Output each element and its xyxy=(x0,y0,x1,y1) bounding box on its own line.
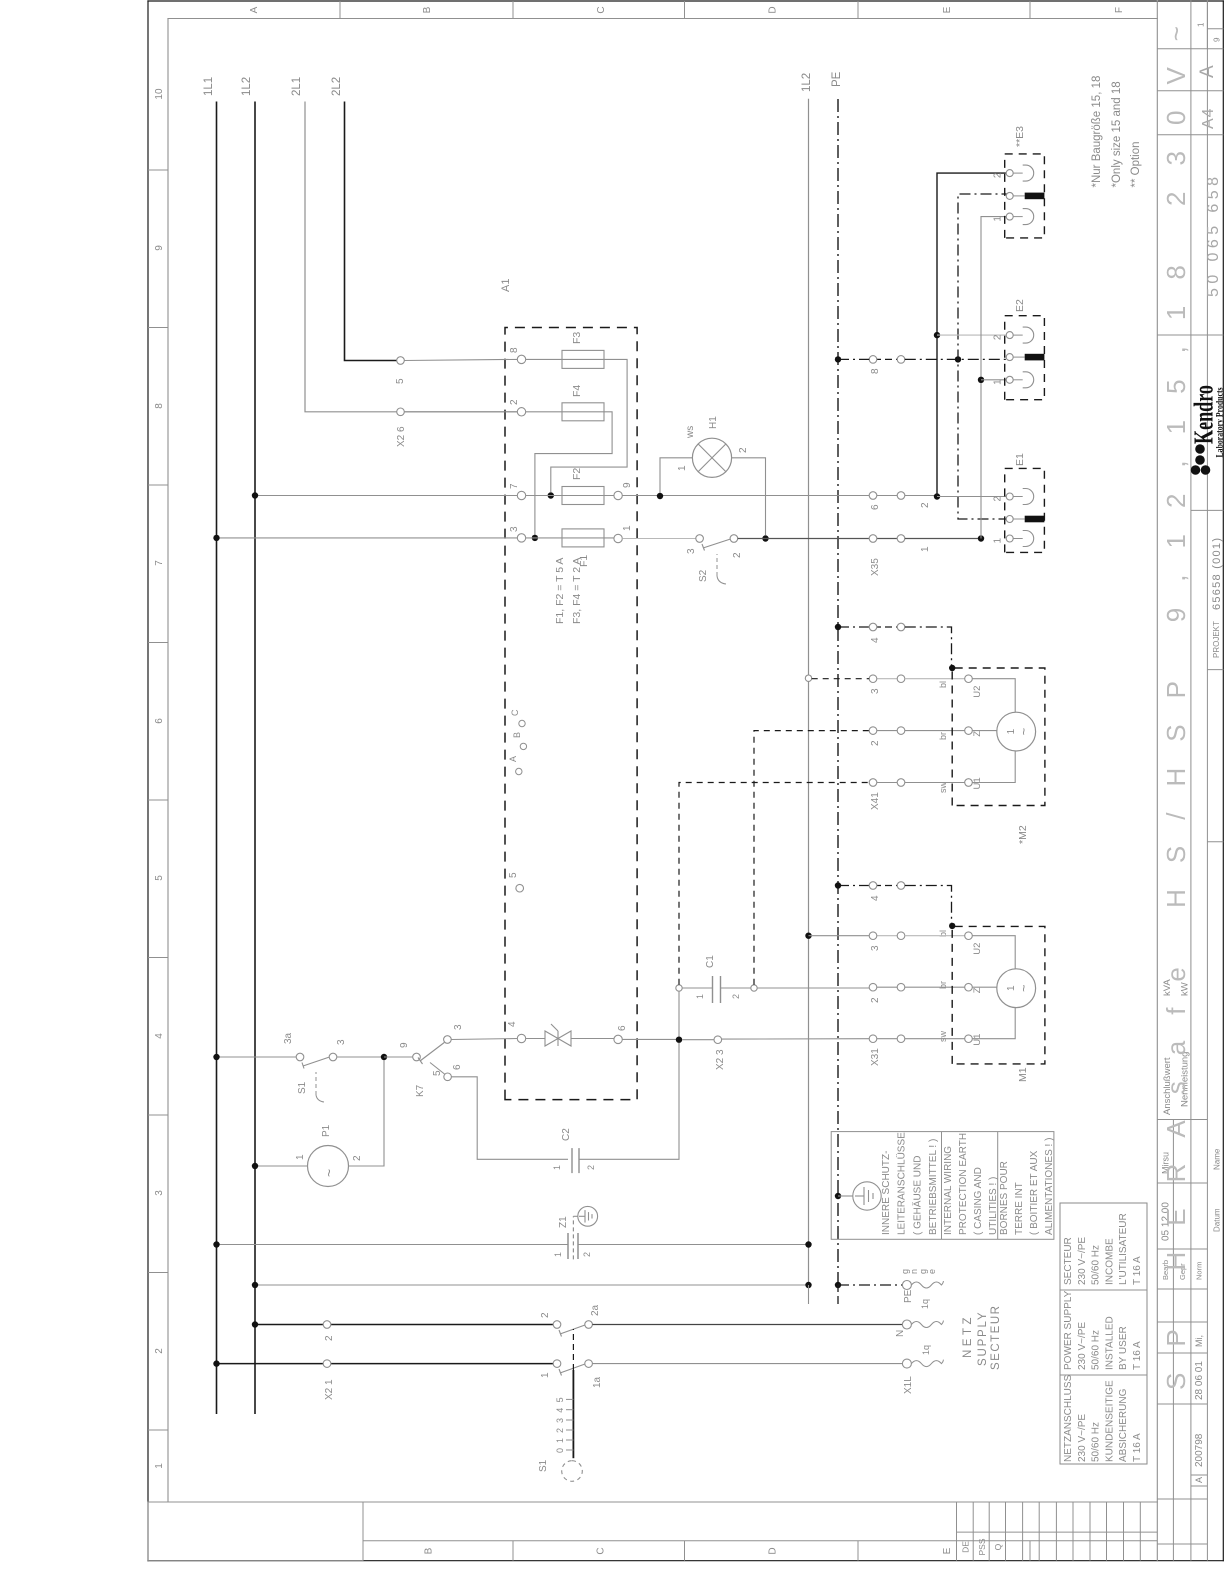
E1 lamp contact symbols xyxy=(1013,489,1033,547)
PE earth symbol branch xyxy=(835,1182,881,1210)
junction M2 frame PE xyxy=(949,665,955,671)
M1 pin U1 xyxy=(965,1035,973,1043)
triac V1 in A1 xyxy=(526,1024,614,1046)
**E3 pin mid PE xyxy=(1006,192,1013,199)
svg-text:1: 1 xyxy=(552,1165,562,1170)
svg-text:28 06 01: 28 06 01 xyxy=(1194,1361,1205,1400)
svg-text:6: 6 xyxy=(154,718,165,724)
svg-text:2: 2 xyxy=(732,552,743,558)
svg-text:S1: S1 xyxy=(538,1459,549,1472)
svg-text:50/60 Hz: 50/60 Hz xyxy=(1091,1330,1102,1370)
svg-text:2: 2 xyxy=(352,1155,363,1161)
wires X41 to M2 xyxy=(905,678,965,680)
svg-text:1L1: 1L1 xyxy=(203,77,215,96)
terminal X23 circle xyxy=(714,1036,722,1044)
svg-text:2: 2 xyxy=(993,172,1004,178)
svg-text:( BOITIER ET AUX: ( BOITIER ET AUX xyxy=(1029,1150,1040,1235)
svg-text:8: 8 xyxy=(154,403,165,409)
svg-text:2: 2 xyxy=(870,740,881,746)
svg-text:A: A xyxy=(249,6,260,13)
svg-text:( CASING AND: ( CASING AND xyxy=(973,1167,984,1235)
svg-text:7: 7 xyxy=(154,560,165,566)
**E3 chassis bar xyxy=(1013,193,1044,200)
wire H1 pin 2 to S2 output xyxy=(732,458,766,535)
capacitor C2 xyxy=(552,1128,596,1173)
junction on 1L1 xyxy=(213,1054,219,1060)
svg-text:6: 6 xyxy=(452,1064,463,1070)
svg-text:S1: S1 xyxy=(297,1081,308,1094)
S1 mechanical link at contact xyxy=(297,1072,324,1102)
svg-text:L'UTILISATEUR: L'UTILISATEUR xyxy=(1118,1213,1129,1285)
wire node 9 to K7 contact xyxy=(384,1056,413,1058)
dashed wire sw to X41:1 xyxy=(679,783,869,985)
svg-text:10: 10 xyxy=(154,88,165,100)
relay contact K7 9-3 xyxy=(399,1024,464,1064)
terminal X41 pin 4 xyxy=(869,623,905,643)
svg-text:*Only size 15 and 18: *Only size 15 and 18 xyxy=(1111,81,1123,187)
junction X23 node xyxy=(676,1037,682,1043)
svg-text:X2 3: X2 3 xyxy=(715,1049,726,1070)
svg-text:ws: ws xyxy=(685,426,696,439)
svg-text:3: 3 xyxy=(870,688,881,694)
junction PE E-branch xyxy=(955,356,961,362)
svg-text:1: 1 xyxy=(555,1438,565,1443)
terminal X31 pin 4 xyxy=(869,882,905,901)
fuse F1 xyxy=(526,529,614,567)
svg-text:BY USER: BY USER xyxy=(1118,1326,1129,1370)
frame row ruler letters A-F right side xyxy=(249,1,1125,19)
svg-text:1: 1 xyxy=(622,525,633,531)
svg-text:65658 (001): 65658 (001) xyxy=(1211,538,1223,610)
wire 2L2 X2:5 to A1 pin 8 xyxy=(404,359,517,360)
power supply table NETZANSCHLUSS POWER SUPPLY SECTEUR xyxy=(1060,1203,1147,1464)
svg-text:X2 1: X2 1 xyxy=(324,1379,335,1400)
svg-text:1: 1 xyxy=(993,538,1004,544)
svg-text:BORNES POUR: BORNES POUR xyxy=(999,1161,1010,1235)
E2 lamp contact symbols xyxy=(1013,327,1033,388)
svg-text:1q: 1q xyxy=(921,1345,931,1355)
wire A1 pin 3 to bus 1L1 xyxy=(217,537,518,539)
svg-text:D: D xyxy=(767,1547,778,1554)
svg-text:N: N xyxy=(895,1330,906,1337)
svg-text:PROJEKT: PROJEKT xyxy=(1212,621,1221,658)
wire N to mains arrow xyxy=(592,1324,903,1326)
svg-text:e: e xyxy=(927,1269,937,1274)
A1 pin 7 xyxy=(517,491,525,499)
svg-text:D: D xyxy=(767,6,778,13)
junction end on 1L2 right xyxy=(805,1282,811,1288)
svg-text:A4: A4 xyxy=(1200,107,1217,129)
terminal X2:1 xyxy=(323,1360,331,1368)
svg-text:~: ~ xyxy=(1016,984,1031,992)
main switch S1 contact 1-1a xyxy=(540,1360,603,1388)
svg-text:5: 5 xyxy=(555,1397,565,1402)
svg-text:8: 8 xyxy=(870,368,881,374)
A1 pin 4 xyxy=(517,1034,525,1042)
svg-text:1: 1 xyxy=(295,1154,306,1160)
X35 pin 1 xyxy=(869,535,905,543)
wire sw X23 to X31:1 xyxy=(682,1039,714,1041)
svg-text:1: 1 xyxy=(993,216,1004,222)
frame top-left spare box xyxy=(148,1502,363,1561)
wire N row from 1L2 xyxy=(255,1324,553,1326)
svg-text:1: 1 xyxy=(154,1463,165,1469)
svg-text:H1: H1 xyxy=(708,416,719,429)
label NETZ SUPPLY SECTEUR xyxy=(962,1305,1002,1370)
Kendro Laboratory Products logo xyxy=(1189,385,1224,475)
svg-text:SECTEUR: SECTEUR xyxy=(990,1305,1002,1370)
svg-text:9: 9 xyxy=(622,482,633,488)
junction on 1L2 xyxy=(252,1321,258,1327)
wire H1 pin 1 xyxy=(660,458,692,493)
terminal X2:2 xyxy=(323,1321,331,1329)
M1 pin Z xyxy=(965,983,973,991)
svg-text:SECTEUR: SECTEUR xyxy=(1063,1237,1074,1285)
junction on 1L2 pin7 wire xyxy=(252,492,258,498)
svg-text:Laboratory Products: Laboratory Products xyxy=(1214,387,1224,458)
wire colour gnge xyxy=(900,1269,937,1274)
svg-text:B: B xyxy=(424,1547,435,1554)
junction on 1L2 xyxy=(252,1163,258,1169)
svg-text:T 16 A: T 16 A xyxy=(1132,1341,1143,1370)
junction lamp feed 2 xyxy=(934,493,940,499)
*M2 pin Z xyxy=(965,727,973,735)
PE branch to X31:4 xyxy=(838,885,869,887)
frame row ruler letters B-E left side xyxy=(363,1541,1157,1561)
M1 internal wiring xyxy=(972,936,1015,969)
A1 pin 3 xyxy=(517,534,525,542)
*M2 internal wiring xyxy=(972,679,1015,713)
svg-text:INCOMBE: INCOMBE xyxy=(1104,1238,1115,1285)
svg-text:INSTALLED: INSTALLED xyxy=(1104,1316,1115,1370)
wire S1:3 to K7 node 9 xyxy=(337,1056,384,1058)
junction lamp feed 1 xyxy=(978,535,984,541)
svg-text:U1: U1 xyxy=(972,1034,983,1046)
junction on 1L1 pin3 wire xyxy=(213,535,219,541)
svg-text:B: B xyxy=(422,6,433,13)
fuse F3 xyxy=(526,332,604,369)
UV lamp E1 dashed box xyxy=(1005,468,1045,552)
wire E2:2 drop xyxy=(937,334,1006,336)
svg-text:2: 2 xyxy=(586,1165,596,1170)
svg-text:2: 2 xyxy=(555,1428,565,1433)
UV lamp E2 dashed box xyxy=(1005,316,1045,400)
terminal X31 pin 2 xyxy=(869,983,905,1003)
svg-text:PE: PE xyxy=(903,1289,914,1303)
A1 tap points A B C xyxy=(508,709,527,775)
svg-text:P1: P1 xyxy=(321,1124,332,1137)
svg-text:1L2: 1L2 xyxy=(801,73,813,92)
K7 contact 5-6 to C2 xyxy=(430,1063,463,1081)
svg-text:0: 0 xyxy=(555,1448,565,1453)
fuse F4 xyxy=(526,385,604,421)
E2 pin mid PE xyxy=(1006,354,1013,361)
svg-text:PSS: PSS xyxy=(977,1538,987,1555)
PE dash-dot X31:4 to M1 frame xyxy=(905,886,952,926)
svg-text:U2: U2 xyxy=(972,686,983,698)
capacitor C1 xyxy=(695,955,741,1003)
svg-text:F2: F2 xyxy=(571,468,583,480)
svg-text:5: 5 xyxy=(154,875,165,881)
svg-text:C1: C1 xyxy=(705,955,716,968)
bus 1L1 xyxy=(216,102,218,1415)
svg-text:230 V~/PE: 230 V~/PE xyxy=(1077,1237,1088,1285)
bus 2L1 xyxy=(305,102,518,412)
svg-text:F3: F3 xyxy=(571,332,583,344)
svg-text:Norm: Norm xyxy=(1195,1262,1204,1280)
option tap on 1L2 for M2 bl xyxy=(805,675,811,681)
motor *M2 dashed box xyxy=(952,668,1045,806)
svg-text:sw: sw xyxy=(938,782,948,794)
E1 chassis bar xyxy=(1013,516,1044,523)
svg-text:200798: 200798 xyxy=(1194,1433,1205,1467)
svg-text:2: 2 xyxy=(993,334,1004,340)
svg-text:LEITERANSCHLÜSSE: LEITERANSCHLÜSSE xyxy=(896,1132,908,1235)
svg-text:Q: Q xyxy=(993,1543,1003,1550)
wire X35:1 segment xyxy=(905,538,981,540)
svg-text:br: br xyxy=(938,981,948,989)
wire F3 output to node 7 xyxy=(551,359,627,492)
M1 motor circle xyxy=(997,969,1036,1008)
wire br C1 to X31:2 xyxy=(757,987,869,989)
svg-text:1: 1 xyxy=(920,546,931,552)
terminal X2:5 in 2L2 xyxy=(397,357,405,365)
svg-text:2L1: 2L1 xyxy=(291,77,303,96)
terminal X31 pin 3 xyxy=(869,932,905,951)
junction H1 branch xyxy=(657,493,663,499)
*M2 pin U2 xyxy=(965,675,973,683)
svg-text:2: 2 xyxy=(993,496,1004,502)
svg-text:2: 2 xyxy=(324,1335,335,1341)
svg-text:X31: X31 xyxy=(870,1048,881,1066)
A1 pin 5 spare xyxy=(516,884,524,892)
svg-text:F4: F4 xyxy=(571,385,583,397)
svg-text:Nennleistung: Nennleistung xyxy=(1180,1052,1191,1107)
junction on PE xyxy=(835,624,841,630)
bus 1L2 right segment xyxy=(808,99,810,1285)
svg-text:4: 4 xyxy=(870,895,881,901)
svg-text:T 16 A: T 16 A xyxy=(1132,1256,1143,1285)
junction on 1L1 xyxy=(213,1360,219,1366)
svg-text:5: 5 xyxy=(508,872,519,878)
svg-text:br: br xyxy=(938,732,948,740)
svg-text:9: 9 xyxy=(399,1042,410,1048)
svg-text:Z: Z xyxy=(972,731,983,737)
X35 pin 8 PE xyxy=(869,356,905,374)
svg-text:F1, F2 = T 5 A: F1, F2 = T 5 A xyxy=(554,558,566,624)
svg-text:Z: Z xyxy=(972,987,983,993)
svg-text:3: 3 xyxy=(870,945,881,951)
svg-text:3a: 3a xyxy=(283,1032,294,1044)
svg-text:3: 3 xyxy=(509,526,520,532)
svg-text:U2: U2 xyxy=(972,943,983,955)
wire L row from 1L1 xyxy=(217,1363,554,1365)
svg-text:ALIMENTATIONES ! ): ALIMENTATIONES ! ) xyxy=(1044,1138,1055,1235)
fuse F2 xyxy=(526,468,614,505)
svg-text:POWER SUPPLY: POWER SUPPLY xyxy=(1063,1290,1074,1370)
wire 1 to E boxes xyxy=(981,217,1006,539)
svg-text:3: 3 xyxy=(336,1039,347,1045)
svg-text:3: 3 xyxy=(453,1024,464,1030)
svg-text:TERRE INT: TERRE INT xyxy=(1014,1182,1025,1235)
wire K7:3 to A1 pin 4 xyxy=(451,1039,517,1040)
svg-text:kW: kW xyxy=(1180,982,1191,996)
svg-text:A: A xyxy=(1197,65,1218,78)
mains terminal PE arrow xyxy=(902,1281,943,1304)
terminal X41 pin 1 xyxy=(869,779,905,787)
svg-text:1: 1 xyxy=(553,1252,563,1257)
wire A1 pin 7 to bus 1L2 xyxy=(255,495,517,497)
svg-text:4: 4 xyxy=(507,1021,518,1027)
svg-text:K7: K7 xyxy=(415,1084,426,1097)
wire S2:2 to X35:1 xyxy=(738,538,873,540)
svg-text:2: 2 xyxy=(920,502,931,508)
svg-text:C: C xyxy=(510,709,520,716)
svg-text:** Option: ** Option xyxy=(1130,141,1142,187)
junction bl on 1L2 xyxy=(805,933,811,939)
*M2 pin U1 xyxy=(965,779,973,787)
svg-text:C: C xyxy=(596,1547,607,1554)
bus PE dash-dot xyxy=(837,99,839,1285)
svg-text:T 16 A: T 16 A xyxy=(1132,1433,1143,1462)
svg-text:*M2: *M2 xyxy=(1017,825,1029,844)
svg-text:F3, F4 = T 2 A: F3, F4 = T 2 A xyxy=(571,558,583,624)
svg-text:ABSICHERUNG: ABSICHERUNG xyxy=(1118,1388,1129,1462)
svg-text:Mi,: Mi, xyxy=(1194,1335,1204,1347)
svg-text:3: 3 xyxy=(686,548,697,554)
wire A1 pin 1 to S2 xyxy=(622,538,696,540)
svg-text:3: 3 xyxy=(555,1418,565,1423)
A1 pin 8 xyxy=(517,355,525,363)
PE to mains arrow xyxy=(835,1282,903,1304)
svg-text:2: 2 xyxy=(731,994,741,999)
junction F3-7 xyxy=(548,492,554,498)
svg-text:~: ~ xyxy=(321,1169,337,1177)
PE dash-dot X41:4 to M2 frame xyxy=(905,627,952,667)
wire bus 1L1 to S1 contact 3a xyxy=(217,1056,297,1058)
svg-text:INNERE SCHUTZ-: INNERE SCHUTZ- xyxy=(881,1151,892,1235)
svg-text:UTILITIES ! ): UTILITIES ! ) xyxy=(988,1177,999,1235)
S1 mechanical dashed link xyxy=(572,1329,574,1370)
junction node 9 xyxy=(381,1054,387,1060)
svg-text:1L2: 1L2 xyxy=(241,77,253,96)
svg-text:E: E xyxy=(942,6,953,13)
indicator lamp H1 ws xyxy=(677,416,749,478)
PE X35:8 to E2 mid xyxy=(905,358,1006,360)
svg-text:X2 6: X2 6 xyxy=(396,426,407,447)
terminal X2:6 in 2L1 xyxy=(397,408,405,416)
E2 pin 2 xyxy=(1006,332,1013,339)
svg-text:1a: 1a xyxy=(592,1376,603,1388)
svg-text:4: 4 xyxy=(154,1033,165,1039)
svg-text:E2: E2 xyxy=(1014,299,1026,312)
main switch S1 operator xyxy=(555,1370,573,1458)
wire E1:2 drop xyxy=(937,496,1006,498)
svg-text:2: 2 xyxy=(154,1348,165,1354)
terminal X41 pin 3 xyxy=(869,675,905,694)
svg-text:2L2: 2L2 xyxy=(331,77,343,96)
wire 2 to E boxes xyxy=(937,173,1006,496)
svg-text:6: 6 xyxy=(870,504,881,510)
margin language table DE PSS Q xyxy=(957,1502,1158,1561)
PE dash-dot to X35:8 xyxy=(838,358,869,360)
terminal X41 pin 2 xyxy=(869,727,905,746)
svg-text:SUPPLY: SUPPLY xyxy=(977,1311,989,1366)
svg-text:Datum: Datum xyxy=(1213,1208,1222,1232)
svg-text:1: 1 xyxy=(1197,22,1206,27)
svg-text:E: E xyxy=(942,1547,953,1554)
mains terminal N arrow xyxy=(895,1320,943,1337)
svg-text:50/60 Hz: 50/60 Hz xyxy=(1091,1245,1102,1285)
**E3 pin 1 xyxy=(1006,213,1013,220)
svg-text:2: 2 xyxy=(870,997,881,1003)
junction E2 branch wire 1 xyxy=(978,377,984,383)
svg-text:Z1: Z1 xyxy=(558,1216,569,1228)
mains terminal L arrow X1L xyxy=(902,1359,943,1394)
svg-text:PE: PE xyxy=(831,71,843,87)
E2 chassis bar xyxy=(1013,354,1044,361)
svg-text:*Nur Baugröße 15, 18: *Nur Baugröße 15, 18 xyxy=(1091,76,1103,188)
switch S2 3-2 xyxy=(686,535,743,558)
A1 pin 9 xyxy=(614,491,622,499)
svg-text:2: 2 xyxy=(582,1252,592,1257)
svg-text:2: 2 xyxy=(540,1312,551,1318)
Z1 earth circle xyxy=(573,1206,597,1226)
junction F4-3 xyxy=(532,535,538,541)
wire node 9 to P1 xyxy=(349,1060,385,1166)
PE branch to E1 and E3 mid xyxy=(958,194,1010,519)
M1 pin U2 xyxy=(965,932,973,940)
svg-text:3: 3 xyxy=(154,1190,165,1196)
svg-text:INTERNAL WIRING: INTERNAL WIRING xyxy=(943,1146,954,1235)
junction E2 branch wire 2 xyxy=(934,332,940,338)
wire 1L1 to Z1 xyxy=(217,1244,569,1246)
svg-text:4: 4 xyxy=(870,637,881,643)
svg-text:F: F xyxy=(1114,7,1125,13)
svg-text:PROTECTION EARTH: PROTECTION EARTH xyxy=(958,1133,969,1235)
svg-text:5: 5 xyxy=(395,378,406,384)
X35 pin 6 xyxy=(869,492,905,510)
wire 1L2 feed down x299 xyxy=(255,1284,809,1286)
junction on PE xyxy=(835,882,841,888)
controller A1 dashed box xyxy=(505,328,637,1100)
junction on PE xyxy=(835,356,841,362)
svg-text:Name: Name xyxy=(1213,1148,1222,1170)
wire F4 output to node 3 xyxy=(535,412,612,535)
svg-text:9: 9 xyxy=(1213,37,1222,42)
A1 pin 1 xyxy=(614,534,622,542)
svg-text:A: A xyxy=(1194,1477,1204,1483)
svg-text:230 V~/PE: 230 V~/PE xyxy=(1077,1414,1088,1462)
wire C1 top to plate xyxy=(682,987,712,989)
svg-text:5: 5 xyxy=(432,1070,443,1076)
wire bl 1L2 to X31:3 xyxy=(809,935,870,937)
main switch S1 contact 2-2a xyxy=(540,1304,601,1336)
svg-text:( GEHÄUSE UND: ( GEHÄUSE UND xyxy=(911,1156,923,1235)
wires X31 to M1 xyxy=(905,935,965,937)
wire P1 to bus 1L2 xyxy=(255,1165,308,1167)
S2 mechanical symbol xyxy=(698,554,726,584)
svg-text:1: 1 xyxy=(677,465,688,471)
frame column ruler numbers 1-10 xyxy=(148,88,168,1469)
wire K7:6 to capacitor C2 xyxy=(451,1077,568,1160)
C1 terminal circles xyxy=(676,985,682,991)
bus 1L2 left xyxy=(254,102,256,1415)
title block grid xyxy=(1157,0,1223,1561)
title block small texts xyxy=(1161,538,1224,1483)
wire C1 to X23 node xyxy=(678,991,680,1036)
protective earth note box xyxy=(831,1132,1055,1240)
